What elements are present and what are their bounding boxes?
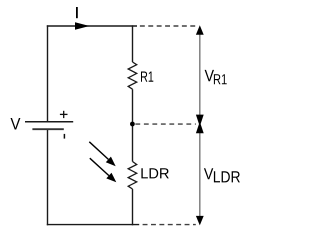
VR1 measurement arrow shaft <box>199 33 201 117</box>
VR1 arrowhead down <box>196 115 204 127</box>
wire middle between R1 and node <box>132 89 134 124</box>
wire middle vertical top segment <box>132 25 134 62</box>
current direction arrowhead on top wire <box>75 22 90 30</box>
wire middle below LDR <box>132 189 134 225</box>
label V (battery) <box>11 118 21 130</box>
dashed line top (node to VR1 arrow) <box>140 25 196 27</box>
wire left vertical lower <box>47 129 49 225</box>
battery V long plate (+) <box>25 121 73 123</box>
light arrow 2 <box>90 158 117 182</box>
resistor R1 zigzag <box>128 62 137 89</box>
light arrow 1 <box>89 142 115 166</box>
dashed line bottom <box>143 224 196 226</box>
VR1 arrowhead up <box>196 25 204 35</box>
label V_LDR (V with LDR subscript) <box>204 168 213 179</box>
battery plus sign <box>60 111 68 118</box>
wire left vertical upper <box>47 25 49 121</box>
label LDR <box>141 168 168 178</box>
battery V short plate (-) <box>32 128 63 130</box>
label V_R1 (V with R1 subscript) <box>205 70 214 81</box>
label R1 <box>141 72 153 82</box>
wire top horizontal <box>47 25 137 27</box>
wire middle between node and LDR <box>132 124 134 162</box>
wire bottom horizontal <box>47 224 139 226</box>
battery minus tick <box>63 134 65 139</box>
LDR zigzag <box>128 162 137 190</box>
dashed line middle (node to arrows) <box>135 123 195 125</box>
node junction dot (R1/LDR divider output) <box>130 122 135 127</box>
VLDR arrowhead down <box>196 216 204 226</box>
VLDR measurement arrow shaft <box>199 133 201 216</box>
VLDR arrowhead up <box>196 122 204 134</box>
label I <box>76 7 78 18</box>
